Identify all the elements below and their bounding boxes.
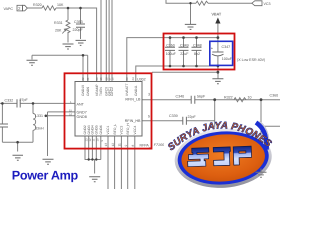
svg-text:R320: R320: [33, 3, 42, 7]
svg-text:U302: U302: [137, 77, 146, 81]
svg-text:10K: 10K: [57, 3, 64, 7]
svg-text:9: 9: [124, 145, 128, 147]
svg-text:16: 16: [110, 77, 114, 81]
svg-text:C353: C353: [74, 20, 83, 24]
svg-text:GND9: GND9: [86, 87, 90, 96]
svg-text:L331: L331: [35, 114, 43, 118]
svg-text:11: 11: [118, 143, 122, 147]
svg-text:16: 16: [69, 112, 73, 116]
svg-text:22: 22: [81, 77, 85, 81]
svg-text:12: 12: [111, 143, 115, 147]
svg-text:20K: 20K: [55, 28, 62, 32]
svg-text:21: 21: [86, 77, 90, 81]
svg-text:3: 3: [148, 93, 150, 97]
svg-text:RFIN_LB: RFIN_LB: [125, 97, 141, 101]
svg-text:GPC2: GPC2: [110, 87, 114, 96]
svg-text:GND6: GND6: [99, 125, 103, 134]
svg-text:33nH: 33nH: [35, 127, 44, 131]
svg-text:XVBATT: XVBATT: [125, 83, 129, 96]
svg-text:5: 5: [148, 115, 150, 119]
svg-text:10: 10: [96, 138, 100, 142]
svg-text:13: 13: [104, 143, 108, 147]
svg-text:GND5: GND5: [95, 125, 99, 134]
svg-text:19: 19: [99, 77, 103, 81]
svg-text:10: 10: [248, 96, 252, 100]
svg-text:C340: C340: [176, 94, 185, 98]
svg-text:220pF: 220pF: [73, 28, 84, 32]
svg-text:GND11: GND11: [134, 85, 138, 96]
svg-text:VCC1: VCC1: [106, 126, 110, 135]
svg-text:R331: R331: [54, 21, 63, 25]
svg-text:100uF: 100uF: [222, 57, 233, 61]
svg-text:VC3: VC3: [264, 2, 271, 6]
svg-text:2: 2: [18, 6, 21, 11]
svg-text:R322: R322: [224, 96, 233, 100]
svg-text:Power Amp: Power Amp: [12, 169, 79, 183]
svg-text:24: 24: [131, 77, 135, 81]
svg-text:C332: C332: [5, 99, 14, 103]
svg-text:27pF: 27pF: [20, 98, 29, 102]
svg-text:C348: C348: [193, 43, 202, 47]
svg-text:VRAMP: VRAMP: [95, 83, 99, 96]
svg-text:20: 20: [95, 77, 99, 81]
svg-text:F7166: F7166: [154, 143, 164, 147]
svg-text:C347: C347: [222, 45, 231, 49]
svg-text:RFPA_: RFPA_: [140, 143, 152, 147]
svg-text:RFO_H: RFO_H: [126, 123, 130, 135]
svg-text:C339: C339: [169, 114, 178, 118]
svg-text:TXEN: TXEN: [99, 87, 103, 96]
svg-text:RFIN_HB: RFIN_HB: [125, 119, 141, 123]
svg-text:+: +: [211, 46, 214, 51]
svg-text:100uF: 100uF: [166, 52, 177, 56]
svg-text:ANT: ANT: [77, 102, 85, 106]
svg-text:VAPC: VAPC: [4, 7, 14, 11]
svg-text:C360: C360: [270, 93, 279, 97]
svg-text:22pF: 22pF: [188, 115, 197, 119]
svg-text:56pF: 56pF: [197, 94, 206, 98]
svg-text:VCC3: VCC3: [120, 126, 124, 135]
svg-text:22uF: 22uF: [180, 52, 189, 56]
svg-text:C349: C349: [180, 43, 189, 47]
svg-text:VCC4: VCC4: [133, 126, 137, 135]
svg-text:VBAT: VBAT: [212, 13, 222, 17]
svg-text:GND8: GND8: [77, 115, 87, 119]
svg-text:GND10: GND10: [81, 85, 85, 96]
svg-text:8p2: 8p2: [194, 52, 200, 56]
svg-text:C350: C350: [166, 43, 175, 47]
svg-text:8: 8: [131, 145, 135, 147]
svg-text:(X Low ESR 40V): (X Low ESR 40V): [237, 58, 265, 62]
svg-text:23: 23: [125, 77, 129, 81]
svg-text:RFO_L: RFO_L: [113, 124, 117, 135]
